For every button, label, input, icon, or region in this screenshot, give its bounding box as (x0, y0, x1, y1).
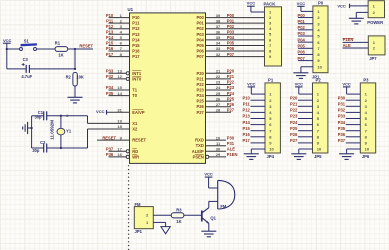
svg-text:P25: P25 (290, 126, 298, 131)
svg-text:R1: R1 (55, 41, 61, 46)
svg-text:P23: P23 (290, 114, 298, 119)
svg-text:P24: P24 (290, 120, 298, 125)
svg-text:30: 30 (216, 146, 221, 151)
svg-text:2: 2 (120, 18, 123, 23)
svg-text:4: 4 (120, 30, 123, 35)
svg-text:P14: P14 (243, 120, 251, 125)
svg-text:P07: P07 (298, 56, 306, 61)
svg-text:12: 12 (117, 74, 122, 79)
svg-text:11.0592M: 11.0592M (50, 120, 55, 140)
svg-text:P12: P12 (132, 26, 140, 31)
svg-text:21: 21 (216, 69, 221, 74)
svg-text:ALE: ALE (343, 43, 351, 48)
svg-text:P34: P34 (338, 120, 346, 125)
svg-text:P35: P35 (106, 91, 114, 96)
svg-text:P15: P15 (106, 41, 114, 46)
svg-text:P17: P17 (243, 138, 251, 143)
svg-text:P21: P21 (227, 74, 235, 79)
svg-text:P01: P01 (197, 21, 205, 26)
svg-text:P25: P25 (227, 96, 235, 101)
svg-text:14: 14 (117, 91, 122, 96)
svg-text:INT0: INT0 (132, 76, 142, 81)
svg-text:JP7: JP7 (369, 56, 377, 61)
svg-text:17: 17 (117, 146, 122, 151)
svg-text:P17: P17 (106, 52, 114, 57)
svg-text:P02: P02 (227, 24, 235, 29)
svg-text:1K: 1K (58, 52, 63, 57)
svg-text:P33: P33 (338, 114, 346, 119)
svg-text:P04: P04 (298, 37, 306, 42)
svg-text:P17: P17 (132, 54, 140, 59)
svg-text:P14: P14 (132, 37, 140, 42)
svg-text:10: 10 (216, 135, 221, 140)
svg-text:4.7uF: 4.7uF (21, 74, 32, 79)
svg-text:P15: P15 (132, 43, 140, 48)
svg-text:R3: R3 (176, 208, 182, 213)
svg-text:P1: P1 (268, 78, 274, 83)
svg-text:P30: P30 (338, 95, 346, 100)
svg-text:36: 36 (216, 30, 221, 35)
svg-text:34: 34 (216, 41, 221, 46)
svg-text:C2: C2 (40, 140, 46, 145)
svg-text:P16: P16 (243, 132, 251, 137)
svg-text:28: 28 (216, 107, 221, 112)
svg-text:9: 9 (120, 135, 123, 140)
svg-text:P31: P31 (227, 141, 235, 146)
svg-text:R2: R2 (66, 75, 72, 80)
svg-text:P32: P32 (106, 74, 114, 79)
svg-text:13: 13 (117, 69, 122, 74)
svg-text:VCC: VCC (295, 81, 304, 86)
svg-text:S1: S1 (24, 38, 30, 43)
svg-text:26: 26 (216, 96, 221, 101)
svg-text:RESET: RESET (132, 138, 146, 143)
svg-text:T0: T0 (132, 93, 138, 98)
svg-text:8: 8 (120, 52, 123, 57)
svg-text:P0: P0 (318, 1, 324, 6)
svg-text:P00: P00 (197, 15, 205, 20)
svg-text:10: 10 (317, 64, 322, 69)
svg-text:P06: P06 (197, 49, 205, 54)
svg-text:P01: P01 (298, 19, 306, 24)
svg-text:PSEN: PSEN (193, 154, 204, 159)
svg-text:P24: P24 (197, 93, 205, 98)
svg-text:P03: P03 (298, 31, 306, 36)
svg-text:10: 10 (317, 147, 322, 152)
svg-text:P04: P04 (197, 37, 205, 42)
svg-text:10K: 10K (76, 75, 84, 80)
svg-text:ALE/P: ALE/P (192, 149, 204, 154)
svg-text:EA/VP: EA/VP (132, 110, 145, 115)
svg-text:P15: P15 (243, 126, 251, 131)
svg-text:37: 37 (216, 24, 221, 29)
svg-text:POWER: POWER (367, 20, 383, 25)
svg-text:27: 27 (216, 102, 221, 107)
svg-text:C3: C3 (23, 57, 29, 62)
svg-text:P23: P23 (227, 85, 235, 90)
svg-text:PACK: PACK (264, 1, 277, 6)
svg-text:5: 5 (120, 35, 123, 40)
svg-text:29: 29 (216, 152, 221, 157)
svg-text:P00: P00 (298, 13, 306, 18)
svg-text:JP4: JP4 (267, 154, 275, 159)
svg-text:33: 33 (216, 46, 221, 51)
svg-text:P24: P24 (227, 91, 235, 96)
svg-text:19: 19 (117, 119, 122, 124)
svg-text:P2: P2 (316, 78, 322, 83)
svg-text:11: 11 (216, 141, 221, 146)
svg-text:P05: P05 (227, 41, 235, 46)
svg-text:Y1: Y1 (66, 128, 72, 133)
svg-text:P10: P10 (132, 15, 140, 20)
svg-text:P12: P12 (106, 24, 114, 29)
svg-text:P13: P13 (132, 32, 140, 37)
svg-text:P11: P11 (132, 21, 140, 26)
svg-text:U1: U1 (128, 7, 134, 12)
svg-text:22: 22 (216, 74, 221, 79)
svg-text:P02: P02 (298, 25, 306, 30)
svg-text:WR: WR (132, 154, 139, 159)
svg-text:P27: P27 (227, 107, 235, 112)
svg-text:TXD: TXD (196, 143, 204, 148)
svg-text:FM: FM (135, 202, 142, 207)
svg-text:P02: P02 (197, 26, 205, 31)
svg-text:35: 35 (216, 35, 221, 40)
svg-text:VCC: VCC (297, 1, 306, 6)
svg-text:3: 3 (120, 24, 123, 29)
svg-text:X2: X2 (132, 127, 138, 132)
svg-text:P33: P33 (106, 69, 114, 74)
svg-text:JP6: JP6 (362, 154, 370, 159)
svg-text:P3: P3 (363, 78, 369, 83)
svg-text:1K: 1K (176, 219, 181, 224)
svg-text:T1: T1 (132, 88, 138, 93)
svg-text:P36: P36 (106, 152, 114, 157)
svg-text:INT1: INT1 (132, 71, 142, 76)
svg-text:P22: P22 (227, 80, 235, 85)
svg-text:P07: P07 (227, 52, 235, 57)
svg-text:P26: P26 (290, 132, 298, 137)
svg-text:VCC: VCC (204, 172, 213, 177)
svg-text:38: 38 (216, 18, 221, 23)
svg-text:P21: P21 (290, 102, 298, 107)
svg-text:P00: P00 (227, 13, 235, 18)
svg-text:P22: P22 (290, 108, 298, 113)
svg-text:P06: P06 (227, 46, 235, 51)
svg-text:P27: P27 (290, 138, 298, 143)
svg-text:P22: P22 (197, 82, 205, 87)
svg-text:7: 7 (120, 46, 123, 51)
svg-text:1: 1 (120, 13, 123, 18)
svg-text:P05: P05 (298, 44, 306, 49)
svg-text:24: 24 (216, 85, 221, 90)
svg-text:23: 23 (216, 80, 221, 85)
svg-text:30p: 30p (34, 115, 42, 120)
svg-text:VCC: VCC (337, 3, 346, 8)
svg-text:P20: P20 (290, 95, 298, 100)
svg-text:P16: P16 (132, 49, 140, 54)
svg-text:P26: P26 (197, 104, 205, 109)
svg-text:RXD: RXD (195, 138, 204, 143)
svg-text:P27: P27 (197, 110, 205, 115)
svg-text:P32: P32 (338, 108, 346, 113)
svg-text:18: 18 (117, 124, 122, 129)
svg-text:P03: P03 (197, 32, 205, 37)
svg-text:P1EN: P1EN (343, 37, 354, 42)
svg-text:P20: P20 (227, 69, 235, 74)
svg-text:P11: P11 (106, 18, 114, 23)
svg-text:RESET: RESET (102, 135, 116, 140)
svg-text:VCC: VCC (3, 38, 12, 43)
svg-text:P31: P31 (338, 102, 346, 107)
svg-text:30p: 30p (32, 148, 40, 153)
svg-text:P16: P16 (106, 46, 114, 51)
svg-text:P03: P03 (227, 30, 235, 35)
svg-text:JP1: JP1 (135, 229, 143, 234)
svg-text:VCC: VCC (247, 1, 256, 6)
svg-text:P04: P04 (227, 35, 235, 40)
svg-text:P05: P05 (197, 43, 205, 48)
svg-text:P36: P36 (338, 132, 346, 137)
svg-text:VCC: VCC (247, 81, 256, 86)
svg-text:25: 25 (216, 91, 221, 96)
svg-text:P13: P13 (243, 114, 251, 119)
svg-text:RD: RD (132, 149, 138, 154)
svg-text:P37: P37 (338, 138, 346, 143)
svg-text:P10: P10 (106, 13, 114, 18)
svg-text:P14: P14 (106, 35, 114, 40)
svg-text:P07: P07 (197, 54, 205, 59)
svg-text:P34: P34 (106, 85, 114, 90)
svg-text:39: 39 (216, 13, 221, 18)
svg-text:P21: P21 (197, 76, 205, 81)
svg-text:VCC: VCC (342, 81, 351, 86)
svg-text:X1: X1 (132, 121, 138, 126)
svg-text:P10: P10 (243, 95, 251, 100)
svg-text:6: 6 (120, 41, 123, 46)
svg-text:P1EN: P1EN (227, 152, 238, 157)
svg-text:31: 31 (117, 107, 122, 112)
svg-text:Q1: Q1 (210, 215, 216, 220)
svg-text:P06: P06 (298, 50, 306, 55)
svg-text:16: 16 (117, 152, 122, 157)
svg-text:10: 10 (365, 147, 370, 152)
svg-text:P25: P25 (197, 99, 205, 104)
svg-text:ALE: ALE (227, 146, 235, 151)
svg-text:32: 32 (216, 52, 221, 57)
svg-text:P37: P37 (106, 146, 114, 151)
svg-text:P35: P35 (338, 126, 346, 131)
svg-text:P13: P13 (106, 30, 114, 35)
svg-text:P12: P12 (243, 108, 251, 113)
svg-text:RESET: RESET (79, 44, 93, 49)
svg-text:P11: P11 (243, 102, 251, 107)
svg-text:P26: P26 (227, 102, 235, 107)
svg-text:P01: P01 (227, 18, 235, 23)
svg-text:P23: P23 (197, 88, 205, 93)
svg-text:FM: FM (220, 204, 227, 209)
svg-text:P20: P20 (197, 71, 205, 76)
svg-text:P30: P30 (227, 135, 235, 140)
svg-text:JP5: JP5 (314, 154, 322, 159)
svg-text:15: 15 (117, 85, 122, 90)
svg-text:2: 2 (66, 114, 68, 118)
svg-text:VCC: VCC (96, 109, 105, 114)
svg-text:10: 10 (269, 147, 274, 152)
